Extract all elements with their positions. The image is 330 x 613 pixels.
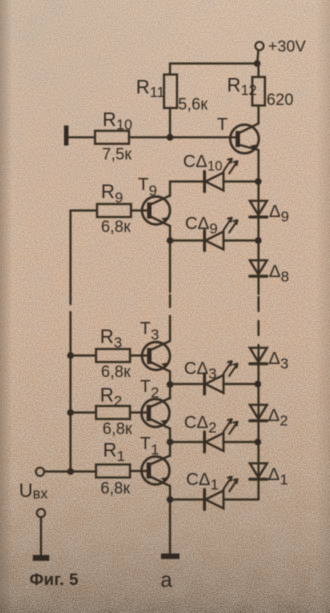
- transistor T3: [142, 341, 170, 372]
- resistor R9: [71, 204, 150, 217]
- diode D3: [250, 348, 267, 364]
- svg-text:T: T: [217, 114, 228, 134]
- input lower terminal: [37, 509, 45, 556]
- diode D1: [250, 463, 267, 479]
- wire bias line dashed gap: [69, 291, 71, 326]
- svg-text:5,6к: 5,6к: [178, 96, 209, 114]
- svg-text:6,8к: 6,8к: [101, 363, 132, 381]
- svg-text:6,8к: 6,8к: [101, 218, 132, 236]
- junction R2 bias: [67, 409, 74, 416]
- svg-text:6,8к: 6,8к: [101, 480, 132, 498]
- svg-text:а: а: [161, 569, 173, 592]
- svg-text:6,8к: 6,8к: [103, 420, 134, 438]
- diode D8: [250, 260, 267, 276]
- chassis bar at R10 left: [64, 126, 69, 146]
- svg-text:7,5к: 7,5к: [102, 146, 133, 164]
- resistor R12: [252, 64, 265, 124]
- input terminal Uvx: [36, 468, 44, 476]
- wire T3 emitter to T2 collector: [169, 372, 171, 399]
- resistor R2: [71, 406, 150, 419]
- wire bias line upper: [69, 211, 71, 293]
- wire T3 collector riser: [169, 327, 171, 341]
- transistor T9: [142, 196, 170, 227]
- transistor T2: [142, 398, 171, 429]
- resistor R11: [164, 64, 177, 138]
- diode D9: [250, 201, 267, 217]
- junction CD9 on rail: [255, 237, 262, 244]
- wire rail lower: [224, 346, 259, 500]
- LED CD2: [170, 419, 256, 452]
- junction +30V on top rail: [254, 60, 261, 67]
- junction CD2 on rail: [254, 439, 261, 446]
- LED CD3: [170, 361, 256, 394]
- ground bar a: [161, 554, 180, 560]
- wire collector rail upper: [257, 150, 259, 294]
- wire rail dashed gap: [257, 297, 259, 346]
- transistor T1: [142, 456, 171, 487]
- resistor R10: [95, 131, 129, 144]
- wire T9 emitter down: [169, 226, 171, 292]
- wire T9 collector riser: [169, 182, 171, 197]
- wire R10 left: [68, 136, 95, 138]
- wire T1 emitter to ground: [169, 486, 171, 554]
- resistor R3: [71, 349, 150, 362]
- junction CD9 anode: [167, 237, 174, 244]
- diode D2: [250, 405, 267, 421]
- junction R11 base line: [167, 134, 174, 141]
- transistor T: [230, 124, 259, 154]
- junction CD3 on rail: [254, 381, 261, 388]
- junction CD1 anode: [167, 496, 174, 503]
- LED CD1: [170, 477, 238, 510]
- power terminal +30V: [255, 42, 263, 64]
- svg-text:+30V: +30V: [268, 39, 306, 56]
- junction R1 input: [67, 468, 74, 475]
- junction CD10 on rail: [255, 178, 262, 185]
- svg-text:620: 620: [267, 91, 294, 109]
- wire chain dashed gap: [169, 295, 171, 327]
- wire top rail R11-R12: [170, 62, 259, 64]
- junction CD3 anode: [167, 381, 174, 388]
- wire base line to T: [129, 136, 237, 138]
- wire T2 emitter to T1 collector: [169, 429, 171, 457]
- resistor R1: [44, 465, 149, 478]
- junction CD2 anode: [167, 439, 174, 446]
- ground bar input: [33, 555, 50, 561]
- LED CD9: [170, 218, 256, 251]
- LED CD10: [170, 159, 256, 192]
- svg-text:Фиг. 5: Фиг. 5: [30, 571, 79, 589]
- junction R3 bias: [67, 352, 74, 359]
- wire bias line lower: [69, 326, 71, 472]
